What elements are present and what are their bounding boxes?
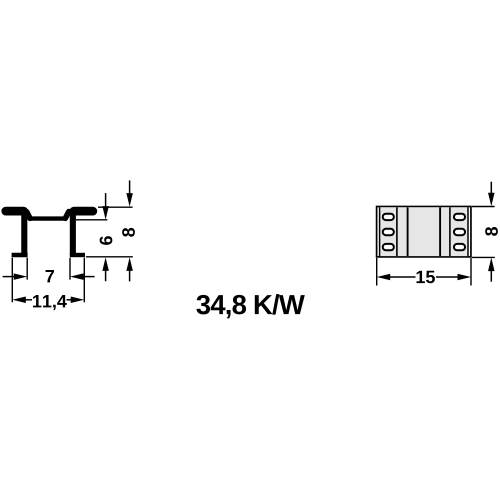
top view inner line 7 xyxy=(467,207,469,256)
extension line 7 right xyxy=(69,258,71,280)
label 8 left xyxy=(122,228,135,237)
extension line foot bottom xyxy=(86,256,133,258)
extension line top view bottom xyxy=(472,256,495,258)
extension line 15 left xyxy=(376,258,378,286)
left foot xyxy=(12,253,28,257)
slot left column row 2 xyxy=(383,229,394,235)
label 6 xyxy=(100,236,113,245)
web (channel bottom) xyxy=(29,216,66,220)
dim 15 right arrow xyxy=(436,274,471,281)
right wall xyxy=(70,211,76,255)
label 11,4 xyxy=(33,295,67,310)
dim 6 top arrow xyxy=(102,193,109,220)
right step-up transition xyxy=(65,212,69,219)
right foot xyxy=(70,253,85,257)
dim 7 right arrow xyxy=(70,273,95,280)
extension line 11,4 right xyxy=(83,258,85,303)
top view inner line 4 xyxy=(407,207,409,256)
label 15 xyxy=(417,271,435,284)
extension line flange top xyxy=(98,206,133,208)
dim 7 left arrow xyxy=(3,273,28,280)
extension line 15 right xyxy=(470,258,472,286)
extension line web bottom xyxy=(76,219,108,221)
dim 8 bottom arrow xyxy=(126,257,133,281)
top view inner line 2 xyxy=(379,207,381,256)
dim 8 right bottom arrow xyxy=(488,258,495,282)
dim 15 left arrow xyxy=(377,274,416,281)
dim 8 right top arrow xyxy=(488,182,495,207)
slot left column row 1 xyxy=(383,214,394,220)
top view inner line 3 xyxy=(396,207,398,256)
label 7 xyxy=(46,270,54,282)
slot right column row 3 xyxy=(454,244,465,250)
slot right column row 2 xyxy=(454,229,465,235)
top view body outline xyxy=(377,207,471,257)
main label 34,8 K/W xyxy=(196,294,304,318)
top view inner line 6 xyxy=(449,207,451,256)
slot right column row 1 xyxy=(454,214,465,220)
extension line 11,4 left xyxy=(11,258,13,303)
right flange (profile section) xyxy=(74,207,93,216)
left wall xyxy=(21,211,27,255)
label 8 right xyxy=(485,227,498,236)
slot left column row 3 xyxy=(383,244,394,250)
top view inner line 5 xyxy=(439,207,441,256)
dim 11,4 right arrow xyxy=(67,297,85,304)
extension line 7 left xyxy=(26,258,28,280)
left step-down transition xyxy=(27,212,30,219)
left flange (profile section) xyxy=(6,207,24,216)
dim 11,4 left arrow xyxy=(12,297,32,304)
dim 8 top arrow xyxy=(126,180,133,206)
extension line top view top xyxy=(472,206,495,208)
top view grey interior xyxy=(380,207,467,256)
dim 6 bottom arrow xyxy=(102,257,109,281)
